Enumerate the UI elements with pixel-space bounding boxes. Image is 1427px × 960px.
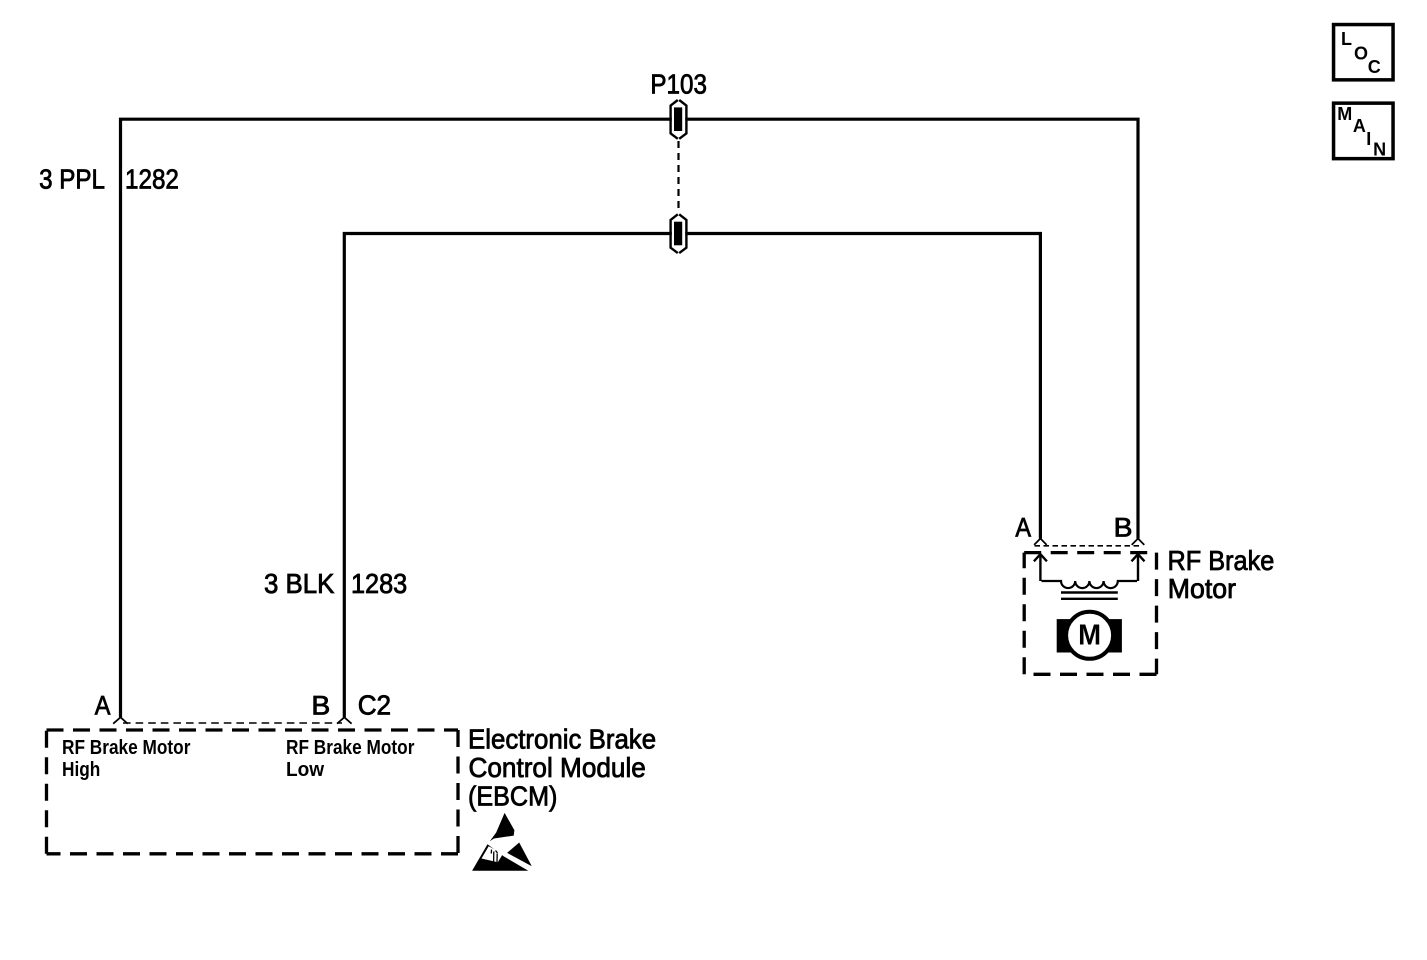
RF brake motor dashed component box [1024,553,1156,675]
label RF Brake Motor line1 [1168,545,1275,576]
svg-text:C: C [1368,57,1381,77]
motor letter M [1078,618,1101,651]
motor circle M [1066,612,1113,659]
ESD fingers [491,850,497,864]
svg-text:A: A [1015,513,1031,543]
svg-text:1282: 1282 [125,165,179,195]
svg-text:Electronic Brake: Electronic Brake [468,724,656,755]
ESD hand white gap [482,846,504,862]
terminal B label (EBCM) [311,690,330,720]
svg-text:C2: C2 [358,690,391,721]
label RF Brake Motor line2 [1168,572,1236,603]
terminal chevron motor A [1034,539,1047,545]
label 1283 [351,568,407,599]
svg-text:1283: 1283 [351,568,407,599]
label Electronic Brake Control Module (EBCM) [468,724,656,755]
svg-text:Motor: Motor [1168,572,1236,603]
svg-text:3 PPL: 3 PPL [39,165,105,195]
svg-text:P103: P103 [650,70,706,100]
MAIN reference box [1334,103,1394,158]
svg-text:O: O [1354,43,1368,63]
motor pin arrow B [1132,554,1145,581]
dashed terminal line EBCM [123,722,342,724]
svg-text:RF Brake Motor: RF Brake Motor [286,736,415,759]
connector id C2 label [358,690,391,721]
terminal B label (RF brake motor) [1114,512,1133,542]
EBCM dashed component box [47,730,459,854]
svg-text:M: M [1078,618,1101,651]
svg-text:RF Brake Motor: RF Brake Motor [62,736,191,759]
svg-text:Control Module: Control Module [469,752,646,783]
label 1282 [125,165,179,195]
svg-text:I: I [1366,129,1371,149]
LOC reference box [1334,25,1394,80]
svg-text:3 BLK: 3 BLK [264,568,335,599]
ESD sensitive symbol: upper hand cone [490,813,515,841]
terminal A label (RF brake motor) [1015,513,1031,543]
pin function label: RF Brake Motor Low [286,736,415,759]
ESD sensitive symbol: lower-left triangle [472,844,528,871]
motor pin arrow A [1034,554,1047,581]
terminal chevron motor B [1132,539,1145,545]
connector P103 upper inline symbol [671,100,687,139]
svg-text:B: B [1114,512,1133,542]
motor body block [1057,619,1122,652]
label 3 PPL [39,165,105,195]
svg-text:M: M [1337,104,1352,124]
dashed terminal line motor [1035,545,1143,547]
svg-text:Low: Low [286,758,325,781]
svg-text:B: B [311,690,330,720]
wire circuit 1282 (3 PPL): EBCM pin A up, across top, down to motor pin B [121,119,1139,717]
pin function label: RF Brake Motor High [62,736,191,759]
motor core line 1 [1061,591,1118,593]
label 3 BLK [264,568,335,599]
connector P103 dashed mate line [677,141,679,213]
svg-text:(EBCM): (EBCM) [468,780,557,811]
svg-text:A: A [1353,116,1366,136]
svg-text:N: N [1373,140,1386,160]
terminal chevron EBCM A [113,717,128,723]
motor core line 2 [1061,598,1118,600]
svg-text:L: L [1341,29,1352,49]
terminal chevron EBCM B [337,717,352,723]
svg-text:A: A [95,691,111,721]
ESD sensitive symbol: right triangle [507,843,532,867]
terminal A label (EBCM) [95,691,111,721]
label P103 [650,70,706,100]
connector P103 lower inline symbol [671,214,687,253]
svg-text:High: High [62,759,100,782]
wire circuit 1283 (3 BLK): EBCM pin B up, across, down to motor pin A [344,234,1040,718]
motor winding coil [1042,581,1138,588]
